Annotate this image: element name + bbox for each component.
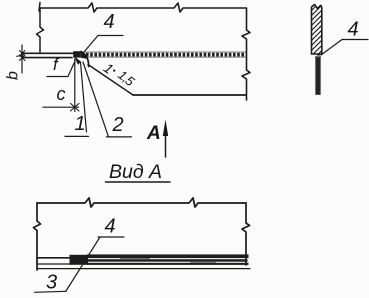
leader 2 xyxy=(83,62,109,137)
dimension c line xyxy=(74,59,76,112)
extension line left (with break) xyxy=(37,8,44,53)
weld band xyxy=(87,254,249,265)
svg-text:4: 4 xyxy=(348,19,359,41)
leader 1 xyxy=(81,62,87,132)
plan top edge with breaks xyxy=(37,198,246,207)
section weld bar xyxy=(316,58,321,95)
section sheet hatched outline xyxy=(312,5,322,55)
f arrowhead into corner xyxy=(74,56,81,65)
sheet left end xyxy=(21,53,23,57)
svg-text:4: 4 xyxy=(105,216,116,238)
tick left end of top dimension xyxy=(39,3,40,12)
sheet bottom line xyxy=(37,268,250,270)
svg-text:1: 1 xyxy=(75,113,86,135)
svg-text:b: b xyxy=(5,71,22,80)
sheet top edge xyxy=(22,52,74,54)
leader 4 right xyxy=(321,40,368,56)
label 3 underline xyxy=(35,291,67,292)
label 2 underline xyxy=(107,136,132,138)
sheet edge line lower xyxy=(37,263,72,265)
svg-text:Вид А: Вид А xyxy=(109,161,162,183)
title underline xyxy=(106,181,171,183)
plate bottom edge xyxy=(133,94,246,96)
svg-text:c: c xyxy=(57,84,66,104)
weld nugget at corner xyxy=(73,51,81,57)
weld bead shading xyxy=(81,52,88,60)
leader 3/4 diagonal xyxy=(66,237,100,291)
svg-text:3: 3 xyxy=(46,272,57,294)
svg-text:А: А xyxy=(146,123,161,144)
dimension c extension xyxy=(43,106,79,108)
hatching of section sheet xyxy=(312,5,322,54)
label 4 bottom shelf xyxy=(98,236,124,238)
dimension b arrows xyxy=(17,51,26,61)
dimension c arrows xyxy=(71,103,80,111)
plate right edge (with breaks) xyxy=(242,8,250,100)
section weld bar top tick xyxy=(315,55,321,57)
dimension b line xyxy=(21,45,23,73)
seam top line xyxy=(85,52,246,57)
sheet bottom edge xyxy=(22,57,72,59)
view arrow A xyxy=(165,131,167,157)
label 1 underline xyxy=(65,135,89,137)
dimension f shelf and leader xyxy=(47,61,75,77)
view arrow A head xyxy=(163,120,168,137)
slope dot xyxy=(113,70,115,72)
bevel line 1:1.5 xyxy=(88,65,133,96)
svg-text:2: 2 xyxy=(112,114,124,136)
sheet edge line upper xyxy=(37,257,72,259)
plan left edge with break xyxy=(34,203,41,270)
weld band start block xyxy=(70,255,89,265)
seam dashed weld strip xyxy=(86,53,246,57)
weld bead arc xyxy=(81,52,89,67)
leader 4 top xyxy=(84,36,123,53)
dimension line top xyxy=(40,3,246,12)
plan right edge with break xyxy=(242,203,250,265)
svg-text:4: 4 xyxy=(104,11,115,33)
